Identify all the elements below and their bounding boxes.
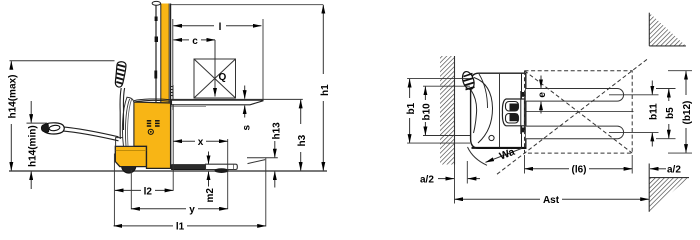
white cowl arch: [122, 97, 133, 146]
dim b1: [406, 79, 470, 144]
svg-text:(l6): (l6): [572, 165, 587, 176]
tiller top view: [460, 70, 476, 133]
svg-text:b5: b5: [665, 107, 676, 119]
lowered fork tip: [206, 164, 238, 169]
lowered fork bar: [172, 165, 209, 170]
vent slots: [147, 121, 160, 126]
svg-text:h3: h3: [297, 134, 308, 146]
dim h14(min) ref tick: [27, 122, 48, 124]
mast top reference line: [159, 4, 323, 6]
mast roller lower: [154, 71, 157, 79]
left wall hatch: [440, 56, 454, 165]
dim s: [242, 86, 253, 131]
dim x: [173, 104, 228, 209]
dim l2: [114, 154, 173, 227]
mast hook upper: [155, 17, 158, 22]
load wheel under fork tip: [215, 168, 229, 173]
svg-text:a/2: a/2: [420, 174, 434, 185]
tiller arm lowered: [62, 127, 119, 137]
load Q box: [194, 59, 236, 98]
svg-text:x: x: [198, 137, 204, 148]
bottom fork: [526, 126, 624, 139]
Wa leader arrow: [486, 149, 522, 163]
ground: [9, 170, 327, 172]
dim h14(max) ref line: [10, 60, 115, 62]
Wa turning arc: [468, 147, 488, 165]
body top ridge: [134, 100, 171, 102]
mast: [156, 4, 171, 165]
raised fork: [171, 99, 303, 106]
dim c: [173, 34, 215, 47]
pallet dashed outline: [497, 59, 648, 175]
fork centre ticks: [609, 94, 659, 96]
tiller grip lowered: [43, 123, 64, 134]
dim b10: [422, 86, 470, 135]
dim h14(min): [28, 101, 39, 189]
emblem: [148, 129, 153, 134]
mast hook middle: [155, 37, 158, 43]
svg-text:(b12): (b12): [682, 101, 693, 125]
grip end cap: [41, 124, 48, 132]
dim a/2 right: [650, 165, 681, 176]
dim h14(max): [8, 61, 19, 170]
dim a/2 left: [420, 161, 480, 185]
tiller arm raised: [120, 88, 121, 139]
truck body top view: [471, 73, 526, 148]
lowered fork tip h13 reference: [247, 157, 278, 159]
truck centre line: [470, 111, 634, 113]
svg-text:c: c: [192, 36, 198, 47]
svg-text:y: y: [189, 205, 195, 216]
fork edge ticks to b5: [656, 88, 676, 90]
dim y: [131, 170, 227, 216]
svg-text:b10: b10: [422, 103, 433, 121]
bottom right wall: [649, 164, 689, 212]
left wall edge: [454, 56, 456, 165]
dim e: [537, 76, 548, 114]
dim l: [173, 19, 263, 99]
svg-text:l2: l2: [144, 186, 153, 197]
svg-text:b1: b1: [406, 102, 417, 114]
dim m2: [205, 152, 216, 203]
dim b5: [665, 89, 676, 138]
svg-text:m2: m2: [205, 188, 216, 203]
top right wall: [649, 13, 686, 46]
dim Ast: [455, 165, 649, 207]
dim (l6): [525, 155, 633, 176]
fork carriage: [171, 85, 173, 110]
svg-text:b11: b11: [649, 103, 660, 120]
svg-text:h14(max): h14(max): [8, 75, 19, 119]
dim h1: [320, 5, 331, 171]
svg-text:l: l: [219, 22, 222, 33]
chassis body: [134, 102, 171, 168]
svg-text:s: s: [242, 125, 253, 131]
mast top cap pulley: [152, 1, 160, 5]
dim (b12): [668, 71, 693, 153]
top fork: [526, 89, 624, 102]
dim h3: [297, 100, 308, 171]
drive wheel: [122, 159, 136, 173]
battery box: [115, 146, 146, 166]
load centre line with arrow: [214, 40, 216, 97]
tiller head raised: [115, 62, 126, 87]
svg-text:e: e: [537, 92, 548, 98]
lever mount bracket: [116, 138, 127, 147]
dim l1: [114, 158, 266, 233]
dim b11: [649, 81, 660, 147]
svg-text:Q: Q: [219, 72, 227, 83]
svg-text:h14(min): h14(min): [28, 125, 39, 167]
svg-text:h1: h1: [320, 84, 331, 96]
svg-text:h13: h13: [271, 122, 282, 140]
grip inner loop: [49, 125, 60, 132]
dim h13: [271, 122, 282, 188]
svg-text:l1: l1: [176, 222, 185, 232]
svg-text:a/2: a/2: [667, 165, 681, 176]
svg-text:Ast: Ast: [543, 195, 560, 206]
